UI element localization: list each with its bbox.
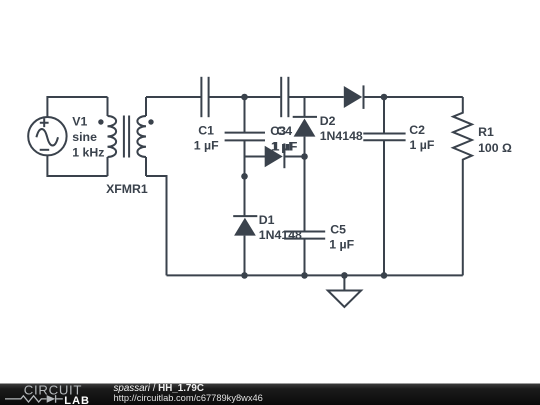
phase dots (98, 119, 103, 124)
svg-text:1N4148: 1N4148 (259, 228, 302, 242)
wire middle diode anode (245, 156, 266, 158)
R1 labels (478, 125, 512, 155)
capacitor C3 (281, 77, 288, 117)
C5 labels (329, 222, 354, 251)
svg-text:D2: D2 (320, 114, 336, 128)
CircuitLab logo (5, 383, 90, 405)
node E junction dot (D1 / bottom rail) (241, 272, 248, 279)
wire middle diode cathode to node C (284, 156, 304, 158)
svg-text:1N4148: 1N4148 (320, 129, 363, 143)
capacitor C2 (363, 134, 405, 141)
voltage source V1 (28, 117, 66, 155)
C3 labels (overlapping C4 labels) (270, 124, 296, 153)
wire D2 to node C (304, 137, 306, 232)
svg-text:C4: C4 (276, 124, 292, 138)
diode D1 (233, 216, 257, 236)
svg-text:sine: sine (72, 130, 97, 144)
svg-text:XFMR1: XFMR1 (106, 182, 148, 196)
wire secondary top to C1 (146, 96, 201, 98)
wire V1 bottom to transformer primary (47, 155, 107, 176)
svg-text:R1: R1 (478, 125, 494, 139)
bottom rail wire (167, 274, 463, 276)
footer title text (114, 383, 263, 403)
wire C1 to node A (209, 96, 281, 98)
capacitor C1 (201, 77, 208, 117)
svg-text:LAB: LAB (64, 395, 90, 405)
capacitor C4 (225, 133, 265, 141)
transformer secondary bottom wire to bottom rail (146, 176, 167, 275)
C2 column wire (383, 97, 385, 134)
svg-text:spassari / HH_1.79C: spassari / HH_1.79C (114, 383, 204, 394)
primary winding (107, 97, 109, 116)
top rectifier diode (unlabeled) (344, 85, 364, 109)
wire C3 to top diode (288, 96, 343, 98)
core (124, 116, 129, 158)
svg-text:C5: C5 (330, 222, 346, 236)
middle rectifier diode (unlabeled) (265, 143, 285, 168)
footer bar (0, 384, 540, 405)
transformer XFMR1 (98, 97, 153, 176)
node D junction dot (241, 173, 248, 180)
wire C2 to bottom rail (383, 140, 385, 275)
svg-text:C2: C2 (409, 123, 425, 137)
node B junction dot (381, 94, 388, 101)
C2 labels (409, 123, 435, 152)
svg-text:1 µF: 1 µF (410, 138, 435, 152)
ground (328, 275, 361, 307)
wire C5 to bottom rail (304, 239, 306, 276)
wire V1 top to transformer primary (47, 97, 107, 117)
wire C4 down to D1 (244, 140, 246, 216)
C4 labels (overlapping C3 labels) (273, 124, 298, 153)
D2 labels (320, 114, 363, 143)
svg-text:D1: D1 (259, 213, 275, 227)
D2 column tap from top rail (304, 97, 306, 117)
node F junction dot (C5 / bottom rail) (301, 272, 308, 279)
C5 column: capacitor C5 (284, 232, 325, 239)
node G junction dot (ground / bottom rail) (341, 272, 348, 279)
C1 labels (194, 123, 219, 152)
node C junction dot (301, 153, 308, 160)
D1 labels (259, 213, 302, 242)
svg-text:100 Ω: 100 Ω (478, 141, 512, 155)
wire D1 to bottom rail (244, 236, 246, 276)
svg-text:1 µF: 1 µF (194, 138, 219, 152)
svg-text:1 kHz: 1 kHz (72, 145, 104, 159)
resistor R1 (453, 97, 472, 275)
node H junction dot (C2 / bottom rail) (381, 272, 388, 279)
node A junction dot (241, 94, 248, 101)
svg-text:http://circuitlab.com/c67789ky: http://circuitlab.com/c67789ky8wx46 (114, 393, 263, 403)
wire top diode to C2 node (364, 96, 463, 98)
svg-text:V1: V1 (72, 115, 87, 129)
V1 value labels (72, 115, 104, 160)
svg-text:C1: C1 (198, 123, 214, 137)
secondary winding (145, 97, 147, 116)
D1 column wire from node A through C4 (244, 97, 246, 133)
diode D2 (293, 117, 317, 137)
svg-text:1 µF: 1 µF (329, 238, 354, 252)
